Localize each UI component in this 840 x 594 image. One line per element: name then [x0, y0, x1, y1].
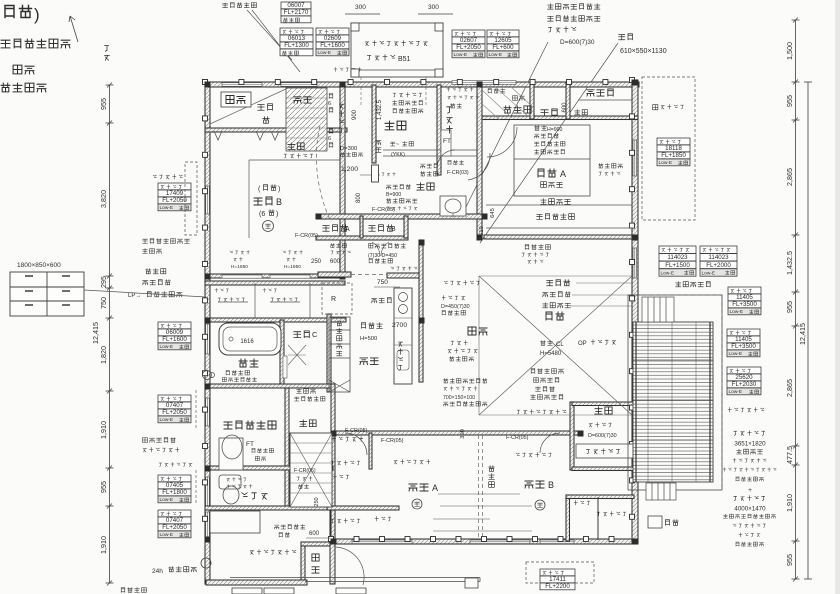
svg-text:250: 250 [314, 497, 320, 506]
svg-text:4000×1470: 4000×1470 [734, 505, 766, 512]
closet labels SA [331, 517, 391, 523]
svg-text:3,820: 3,820 [99, 190, 108, 208]
wall monoC east / kitchen west [327, 314, 331, 392]
svg-text:): ) [34, 5, 40, 24]
wall south west-wing [206, 580, 307, 585]
flat rail note [728, 408, 764, 412]
counter label SW [223, 518, 259, 524]
label itabari [294, 97, 311, 103]
genkan interior details [383, 130, 477, 156]
dim 1200 genkan [341, 166, 380, 175]
living label [546, 312, 564, 320]
window 114023 east [633, 248, 637, 278]
svg-text:2,865: 2,865 [785, 168, 794, 186]
svg-text:FL+2000: FL+2000 [706, 262, 731, 269]
fridge dashed box [322, 283, 352, 314]
stove burners [397, 293, 409, 371]
svg-text:FL+1800: FL+1800 [162, 489, 187, 496]
svg-text:(YKK): (YKK) [391, 152, 405, 158]
svg-text:300: 300 [355, 4, 366, 11]
study label [595, 407, 612, 414]
svg-text:FL+1300: FL+1300 [284, 42, 309, 49]
svg-text:900: 900 [352, 109, 358, 120]
svg-text:OP: OP [578, 341, 587, 347]
window south B [470, 540, 530, 544]
svg-text:07407: 07407 [166, 517, 184, 524]
F-CR labels bedroom wall [345, 428, 529, 444]
spec label 11405a [728, 287, 761, 315]
svg-text:610×550×1130: 610×550×1130 [620, 48, 667, 55]
svg-text:700×150×100: 700×150×100 [443, 395, 475, 401]
svg-text:477.5: 477.5 [785, 446, 794, 464]
remocon niche note [444, 281, 479, 285]
module column squares outer walls [203, 78, 635, 542]
svg-text:): ) [278, 186, 280, 193]
wall senmen south [205, 466, 333, 470]
svg-text:3651×1820: 3651×1820 [734, 440, 766, 447]
window 06009 west [206, 324, 210, 354]
tsurido-nashi vertical label [398, 342, 402, 370]
window 11405b east [633, 430, 637, 460]
svg-text:B: B [548, 480, 554, 490]
svg-text:B: B [391, 226, 396, 233]
svg-text:C: C [312, 330, 318, 339]
kyutoki note [128, 269, 182, 299]
porch corner piers [351, 23, 443, 77]
wall genkan east [437, 85, 441, 175]
uchi-shoji label [488, 89, 505, 93]
wall washitsuB south [205, 274, 345, 278]
garden space dashed rect [642, 77, 695, 220]
wood deck terrace outline [628, 295, 722, 490]
label cloak vertical [339, 104, 343, 133]
bottom cut text [121, 588, 146, 593]
vent circle [201, 558, 211, 568]
monoiriB label [369, 225, 396, 233]
wall closet row bottom NW [205, 128, 347, 132]
washitsuA name [538, 169, 566, 187]
study notes [588, 423, 617, 439]
svg-text:A: A [560, 169, 566, 179]
tare-kabe label [360, 323, 382, 342]
note shikii F-CR03 [447, 161, 469, 177]
wall washitsuA south [484, 235, 638, 239]
svg-text:F-CR(03): F-CR(03) [447, 170, 469, 176]
hall upper label [417, 183, 434, 190]
svg-text:1,432.5: 1,432.5 [785, 251, 794, 275]
svg-text:06013: 06013 [288, 35, 306, 42]
svg-text:600: 600 [309, 531, 320, 537]
svg-text:750: 750 [99, 297, 108, 309]
window 07407 west [206, 398, 210, 426]
window 11405 east [633, 330, 637, 362]
svg-text:F-CR(05): F-CR(05) [381, 438, 404, 444]
svg-text:06007: 06007 [287, 2, 305, 9]
conpane note mid [517, 410, 566, 414]
dashed curve misc [316, 126, 331, 222]
svg-text:Low-E: Low-E [454, 52, 468, 58]
wall monoiri bottom [316, 236, 408, 240]
kataflush door labels washitsuB [230, 250, 303, 270]
svg-text:Low-E: Low-E [702, 270, 716, 276]
svg-text:A: A [432, 483, 438, 493]
wall butsuma west [530, 82, 534, 119]
svg-text:Low-E: Low-E [729, 389, 743, 395]
window 07407b west [206, 512, 210, 540]
heikin CL note [540, 341, 564, 357]
tatami circle B [535, 500, 545, 510]
svg-text:06009: 06009 [166, 329, 184, 336]
shusei pine note mid [441, 296, 470, 315]
note insulated sliding door [365, 41, 427, 46]
svg-text:FL+1850: FL+1850 [661, 152, 686, 159]
wall north [205, 82, 639, 87]
svg-text:07407: 07407 [166, 402, 184, 409]
stairs lower [290, 433, 332, 507]
label oshiire [221, 92, 251, 107]
wall tokonoma west [566, 82, 570, 119]
sugi muku koushi note [531, 369, 564, 400]
washitsuA south door labels [522, 245, 550, 264]
svg-text:955: 955 [785, 95, 794, 107]
svg-text:1,500: 1,500 [785, 42, 794, 60]
cabinet west [10, 272, 84, 316]
stairs upper (itabari) [286, 88, 327, 151]
svg-text:H=1950: H=1950 [284, 264, 301, 270]
tokonoma interior lines [578, 99, 632, 101]
svg-text:A: A [345, 226, 350, 233]
svg-text:1800×850×600: 1800×850×600 [17, 262, 61, 269]
doma label [312, 554, 319, 573]
svg-text:Low-E: Low-E [489, 52, 503, 58]
hojo-zue note [275, 525, 305, 537]
24h kanki note [152, 567, 196, 575]
svg-text:FL+3500: FL+3500 [732, 301, 757, 308]
deck steps bottom [646, 483, 676, 500]
wall closet SA top [327, 506, 399, 510]
dim 300 top1 [345, 4, 380, 14]
svg-text:(6: (6 [259, 211, 265, 218]
wall bath north [205, 318, 346, 322]
makura-dana label [513, 96, 525, 101]
tenkenkou label [295, 389, 325, 401]
svg-text:2700: 2700 [392, 322, 407, 329]
window oshiire top [222, 83, 262, 87]
tsuri-oshiire label [504, 106, 531, 113]
svg-text:FT: FT [246, 441, 254, 448]
window 07405 west [206, 477, 210, 506]
washitsuA jibukuro cabinet box [514, 125, 590, 196]
svg-text:Low-E: Low-E [160, 205, 174, 211]
svg-text:R: R [331, 296, 336, 303]
wall cloak east [372, 85, 376, 163]
spec label 17409 [158, 183, 191, 211]
svg-text:FL+2050: FL+2050 [162, 524, 187, 531]
label D=300 shimoji [340, 146, 363, 157]
wall monoiri divider [360, 216, 363, 238]
labels genkan upper notes [393, 93, 423, 113]
void cross living room [479, 276, 632, 415]
bedroomA-B dashed divider [479, 435, 483, 539]
wall hall west spine [331, 384, 335, 542]
genkan label [385, 121, 406, 130]
kitchen island notes [448, 341, 477, 361]
spec label 02609 [316, 28, 349, 56]
tsuri-oshiire door arc [487, 127, 517, 157]
wall study north [572, 402, 634, 406]
toilet lower fixture [219, 475, 241, 504]
svg-text:955: 955 [99, 98, 108, 110]
svg-text:1,200: 1,200 [341, 166, 358, 173]
wood deck text block [723, 431, 776, 546]
svg-text:FL+2050: FL+2050 [162, 197, 187, 204]
monoiri lower counter walls [318, 272, 419, 278]
oshiire diagonal [210, 88, 288, 124]
bath notes [223, 371, 257, 382]
washbasin senmen [219, 435, 243, 470]
porch dashed guides [361, 77, 426, 105]
svg-text:02607: 02607 [460, 37, 478, 44]
kishitaji vertical label [489, 466, 495, 488]
washitsuA labels [535, 126, 565, 154]
wall bedroom north wall [334, 431, 578, 435]
svg-text:Low-E: Low-E [661, 270, 675, 276]
spec label 02607 [452, 30, 485, 58]
window south A [352, 540, 412, 544]
svg-text:FL+1500: FL+1500 [665, 262, 690, 269]
wall study south [572, 467, 634, 471]
svg-text:LP→: LP→ [128, 293, 141, 299]
bottom cut spec boxes [232, 588, 366, 594]
senmen label [224, 421, 276, 429]
toilet lower label [242, 493, 267, 499]
garden space label [653, 105, 684, 110]
dimension rail right inner [792, 18, 800, 582]
svg-text:Low-E: Low-E [730, 309, 744, 315]
svg-text:114023: 114023 [708, 254, 729, 261]
deck steps top [642, 297, 674, 322]
spec label CFIX 06013 [280, 28, 313, 56]
note gas line [1, 39, 70, 48]
conpane shitaji note B [516, 453, 551, 457]
note kigoushi [421, 164, 438, 176]
washitsuB south sliding door gaps [222, 275, 310, 278]
closet row dividers NW [218, 283, 310, 318]
spec label 17411 [540, 569, 575, 590]
svg-text:FL+2170: FL+2170 [284, 9, 309, 16]
svg-text:2,865: 2,865 [785, 379, 794, 397]
svg-text:295: 295 [99, 276, 108, 288]
svg-text:FL+1600: FL+1600 [162, 336, 187, 343]
study counter [576, 444, 634, 458]
label tana 6dan lower [328, 129, 333, 148]
deck dashed boundary [628, 295, 722, 490]
svg-text:D=600(7)30: D=600(7)30 [560, 39, 595, 46]
stopper note [153, 175, 182, 179]
wall closet row mid-west [205, 281, 345, 285]
svg-text:300: 300 [460, 429, 466, 439]
shinkabe label [541, 199, 571, 205]
bath door [283, 356, 287, 378]
wall closet SE top [566, 495, 634, 499]
note wall finish top [223, 3, 257, 8]
svg-text:17409: 17409 [166, 190, 184, 197]
svg-text:D=300: D=300 [340, 146, 357, 152]
wall pantry east [369, 433, 372, 469]
svg-text:11405: 11405 [735, 336, 752, 343]
dining label [468, 327, 487, 335]
label honbana niche [284, 143, 313, 158]
spec label 07407 [158, 395, 191, 423]
window 17411 south [540, 540, 574, 544]
spec label 18118 [657, 138, 690, 166]
svg-text:02609: 02609 [324, 35, 342, 42]
kataflush note [391, 266, 417, 270]
deck edge doubles [636, 322, 710, 482]
svg-text:18118: 18118 [665, 145, 682, 152]
wall doma top wall [301, 542, 335, 546]
svg-text:FL+2050: FL+2050 [162, 409, 187, 416]
tsuri-oshiire hatch [482, 86, 534, 120]
svg-text:FL+600: FL+600 [492, 44, 514, 51]
counter note below monoiri [368, 244, 405, 263]
bedroomA label [409, 483, 438, 493]
svg-text:114023: 114023 [667, 254, 688, 261]
spec label 11405b [727, 329, 760, 357]
svg-text:B: B [276, 197, 282, 207]
tatami circle A [412, 499, 422, 509]
note gas meter [334, 68, 361, 72]
utility label [250, 550, 296, 555]
window 17409 west [206, 186, 210, 214]
tokonoma label [587, 89, 613, 96]
svg-text:6: 6 [328, 101, 331, 107]
svg-text:12605: 12605 [494, 37, 512, 44]
svg-text:510: 510 [479, 226, 485, 236]
washitsuB inner finish lines [249, 160, 340, 238]
sansui box [648, 516, 678, 528]
hall west label [300, 420, 316, 427]
wall tokonoma row bottom [482, 116, 638, 120]
label tana 6dan upper [328, 94, 333, 113]
svg-text:F-CR(05): F-CR(05) [295, 233, 318, 239]
tatami circle washitsuB [263, 221, 274, 232]
svg-text:CL: CL [556, 342, 564, 348]
hanger V marks [214, 131, 279, 140]
spec label 12605 [487, 30, 519, 58]
wall closet SE divider [597, 497, 599, 540]
west niche dashed lines [195, 390, 197, 505]
svg-text:955: 955 [785, 301, 794, 313]
wall toilet south / counter top [205, 506, 333, 510]
svg-text:1616: 1616 [240, 339, 254, 345]
note concord B51 [367, 55, 410, 63]
dashed rect bottom [526, 562, 594, 583]
bedroom floor lines [433, 494, 532, 531]
dim 750 mid [374, 279, 400, 287]
column dots [205, 80, 638, 545]
window 06013 top [281, 83, 317, 87]
leader arrow top-left [69, 16, 78, 42]
hall handwash basin [440, 196, 466, 217]
sugi itabari note [543, 303, 571, 308]
svg-text:+: + [748, 487, 752, 494]
svg-text:FL+2050: FL+2050 [456, 44, 481, 51]
wall monoiriB east [404, 216, 408, 238]
svg-text:1,432.5: 1,432.5 [377, 99, 383, 120]
svg-text:17411: 17411 [549, 576, 566, 583]
dims 250 600 [311, 259, 341, 265]
doma door arc [335, 547, 364, 585]
label yuka-tenjo YKK [391, 142, 414, 158]
svg-text:F-CR(05): F-CR(05) [294, 468, 316, 474]
wood deck planks [633, 322, 713, 482]
bathroom label [239, 359, 258, 367]
note amido [13, 65, 34, 74]
pantry label [332, 437, 363, 442]
notes top middle-right [548, 4, 600, 46]
svg-text:1,910: 1,910 [99, 421, 108, 439]
seasoning rack note [443, 379, 487, 406]
dairin nageshi label [537, 214, 575, 220]
hinoki note [143, 239, 190, 254]
bedroomB label [525, 480, 554, 490]
svg-text:750: 750 [377, 279, 388, 286]
window 02607/12605 top [452, 81, 516, 85]
takasa uchiawase note [676, 282, 711, 287]
svg-text:D=450(7)30: D=450(7)30 [441, 304, 470, 310]
note guya vertical [105, 46, 110, 61]
svg-text:1,910: 1,910 [99, 536, 108, 554]
wall south main [330, 539, 638, 544]
svg-text:Low-E: Low-E [659, 160, 673, 166]
label mokusei-tategu [386, 185, 417, 211]
wall washitsuB east [340, 85, 345, 278]
OP chain note [578, 340, 616, 347]
wall closet SE west [566, 495, 570, 541]
spec label 06007 [281, 2, 311, 23]
monoiriB counter door arcs [372, 242, 389, 256]
label restbell [447, 87, 479, 107]
svg-text:H=1950: H=1950 [231, 264, 248, 270]
svg-text:F-CR(05): F-CR(05) [372, 207, 395, 213]
deck band dividers [633, 360, 713, 440]
wall bath south [205, 384, 334, 388]
svg-text:F-CR(05): F-CR(05) [506, 435, 529, 441]
closet labels bedroomA [331, 461, 360, 479]
window 25620 east [633, 370, 637, 402]
label toshi-G [372, 298, 392, 303]
svg-text:Low-E: Low-E [160, 417, 174, 423]
svg-text:1,600: 1,600 [562, 102, 568, 118]
spec label 06009 [158, 322, 191, 350]
svg-text:25620: 25620 [735, 374, 753, 381]
leader cabinet to wall [84, 290, 206, 297]
svg-text:250: 250 [311, 259, 322, 265]
kakubashira label [575, 110, 588, 115]
svg-text:07405: 07405 [166, 482, 184, 489]
svg-text:B51: B51 [398, 56, 411, 63]
label kasagi [376, 140, 381, 152]
zosaku shokkidana strip [329, 317, 350, 392]
scan edge shading right [835, 0, 840, 594]
svg-text:FL+1600: FL+1600 [320, 42, 345, 49]
monoC label [294, 330, 318, 339]
dim 600 sw [306, 531, 330, 538]
butsuma label [541, 109, 557, 116]
leader lines from wall finish note [247, 10, 300, 72]
svg-text:12,415: 12,415 [91, 322, 100, 344]
